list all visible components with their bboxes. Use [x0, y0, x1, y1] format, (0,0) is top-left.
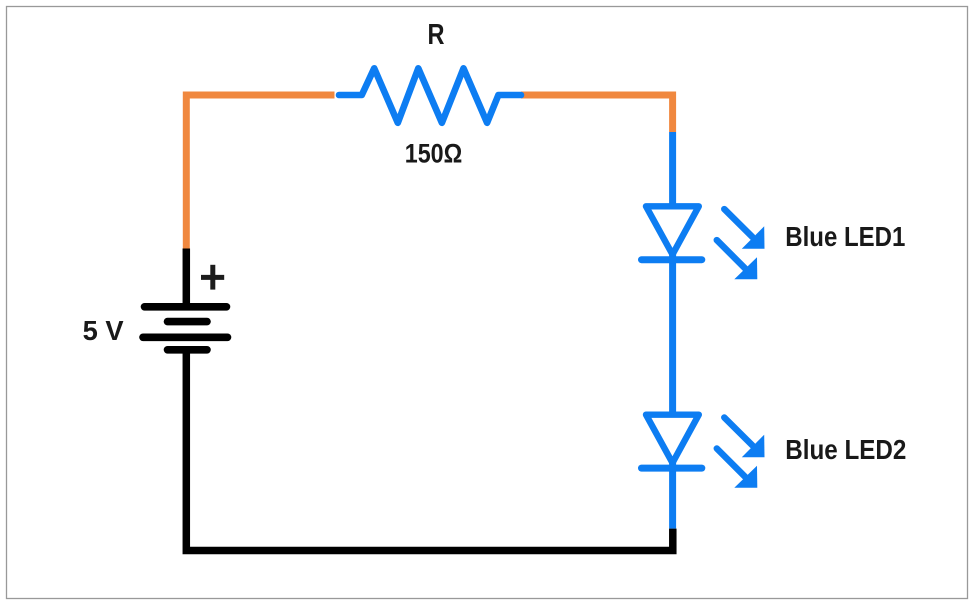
battery plus sign — [201, 265, 224, 290]
D2 emission arrow 1 — [724, 418, 764, 458]
battery BT1 5V — [143, 307, 228, 350]
resistor R 150ohm — [339, 68, 521, 123]
D1 emission arrow 1 — [724, 209, 764, 249]
D1 emission arrow 2 — [717, 240, 758, 279]
wire: orange right (resistor to LED branch) — [521, 95, 673, 132]
svg-text:Blue LED2: Blue LED2 — [785, 434, 906, 465]
LED D1 (Blue LED1) — [642, 206, 765, 279]
wire: black bottom return (battery negative to LED cathode) — [186, 348, 673, 551]
svg-text:Blue LED1: Blue LED1 — [785, 221, 905, 252]
battery plate short bottom — [168, 346, 208, 354]
svg-text:5 V: 5 V — [83, 315, 124, 346]
battery plate long top — [145, 303, 227, 311]
battery plate long — [143, 333, 228, 341]
wire: blue vertical (LED branch) — [669, 132, 676, 529]
wire: orange left (node + from battery to resistor) — [186, 95, 334, 249]
D2 triangle (anode) — [646, 415, 699, 463]
wire: black battery top stub — [183, 249, 191, 309]
D1 cathode bar — [642, 256, 702, 263]
LED D2 (Blue LED2) — [642, 415, 765, 488]
svg-text:150Ω: 150Ω — [405, 139, 463, 169]
D1 triangle (anode) — [646, 206, 699, 254]
battery plate short — [168, 318, 208, 326]
D2 cathode bar — [642, 465, 702, 472]
D2 emission arrow 2 — [717, 449, 758, 488]
svg-text:R: R — [428, 19, 445, 51]
